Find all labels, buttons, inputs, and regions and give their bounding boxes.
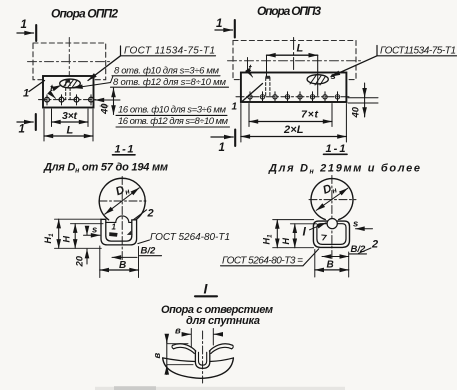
svg-text:Опора ОПП3: Опора ОПП3 [257,4,321,18]
svg-text:1: 1 [112,223,117,232]
svg-text:7×t: 7×t [301,109,319,121]
svg-text:L: L [67,125,74,137]
svg-text:ГОСТ 5264-80-Т3 =: ГОСТ 5264-80-Т3 = [222,256,303,267]
svg-text:1-1: 1-1 [326,143,346,155]
svg-text:для спутника: для спутника [186,315,260,327]
svg-text:1: 1 [23,88,29,100]
svg-text:В/2: В/2 [141,246,157,257]
svg-text:H1: H1 [262,234,274,245]
svg-text:8 отв. ф10 для s=3÷6 мм: 8 отв. ф10 для s=3÷6 мм [114,66,219,77]
svg-text:В: В [327,260,334,271]
svg-text:16 отв. ф12 для s=8÷10 мм: 16 отв. ф12 для s=8÷10 мм [118,116,228,127]
svg-text:L: L [297,43,304,55]
svg-text:Dн: Dн [321,181,338,198]
svg-text:в: в [152,353,163,359]
svg-text:1: 1 [232,102,238,113]
svg-text:2: 2 [371,239,378,251]
svg-text:В: В [119,260,126,271]
svg-text:1: 1 [219,142,225,154]
svg-text:40: 40 [351,106,362,118]
svg-text:3×t: 3×t [62,110,78,122]
svg-text:в: в [175,326,181,337]
svg-text:16 отв. ф10 для s=3÷6 мм: 16 отв. ф10 для s=3÷6 мм [118,105,226,116]
svg-text:t: t [249,63,253,73]
svg-text:ГОСТ 5264-80-Т1: ГОСТ 5264-80-Т1 [150,232,230,243]
svg-text:I: I [204,281,209,297]
svg-text:s: s [92,225,97,236]
svg-text:H1: H1 [43,233,55,244]
svg-text:ГОСТ 11534-75-Т1: ГОСТ 11534-75-Т1 [124,46,215,57]
svg-text:Для Dн 219мм и более: Для Dн 219мм и более [268,163,420,176]
svg-text:20: 20 [75,255,86,267]
svg-text:2×L: 2×L [283,124,304,136]
svg-text:ГОСТ11534-75-Т1: ГОСТ11534-75-Т1 [380,46,456,57]
svg-text:В/2: В/2 [351,244,367,255]
svg-text:1: 1 [216,18,222,30]
svg-text:1: 1 [19,124,25,136]
svg-text:2: 2 [147,208,154,220]
svg-text:Опора ОПП2: Опора ОПП2 [51,7,118,21]
svg-text:s: s [353,219,358,230]
svg-text:1: 1 [21,19,27,31]
svg-text:Dн: Dн [114,182,131,200]
svg-text:8 отв. ф12 для s=8÷10 мм: 8 отв. ф12 для s=8÷10 мм [113,77,226,88]
svg-text:H: H [281,238,291,245]
svg-text:s: s [331,71,336,82]
svg-text:H: H [62,236,72,243]
svg-text:Для Dн от 57 до 194 мм: Для Dн от 57 до 194 мм [43,162,168,175]
svg-text:1-1: 1-1 [115,144,134,156]
svg-text:40: 40 [100,103,111,115]
svg-text:I: I [303,225,307,239]
